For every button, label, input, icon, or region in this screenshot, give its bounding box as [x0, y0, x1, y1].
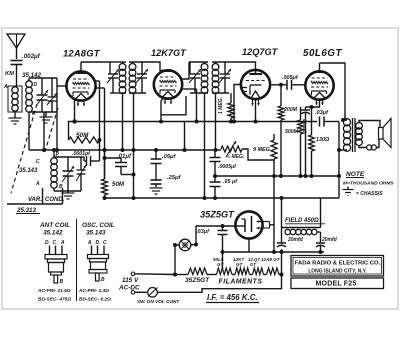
ground — [67, 191, 69, 193]
junction — [221, 250, 225, 254]
speaker — [379, 128, 384, 140]
wire screen — [182, 88, 197, 90]
wire — [281, 198, 283, 243]
junction — [304, 174, 308, 178]
wire diode — [234, 85, 241, 122]
junction — [310, 105, 314, 109]
svg-text:AC-PRI- 21.5Ω: AC-PRI- 21.5Ω — [37, 288, 71, 294]
junction — [254, 120, 258, 124]
wire — [28, 112, 30, 150]
junction — [154, 148, 158, 152]
terminal — [131, 291, 135, 295]
resistor 50M — [69, 122, 75, 141]
svg-text:LONG ISLAND CITY, N.Y.: LONG ISLAND CITY, N.Y. — [308, 269, 367, 275]
wire grid to V2 — [146, 62, 164, 71]
resistor 500M — [300, 107, 302, 120]
wire plate top — [81, 61, 110, 63]
wire — [359, 121, 380, 129]
svg-text:VAR.: VAR. — [28, 197, 42, 203]
svg-text:12K7GT: 12K7GT — [151, 48, 187, 58]
osc coil 35.143 — [53, 150, 55, 158]
gang dashed line — [11, 104, 37, 193]
wire — [320, 198, 322, 228]
resistor 200M — [280, 85, 282, 106]
svg-text:M=THOUSAND OHMS: M=THOUSAND OHMS — [343, 181, 394, 187]
wire — [54, 156, 84, 158]
resistor 50M (osc grid) — [104, 150, 106, 179]
svg-text:20mfd: 20mfd — [321, 237, 338, 243]
wire — [122, 93, 124, 150]
IF2 primary coil — [204, 62, 206, 64]
wire cathode — [306, 100, 320, 107]
bus wire — [215, 175, 339, 177]
voice coil — [359, 145, 367, 148]
variable capacitor (ant tuning) — [41, 78, 43, 95]
wire plate — [180, 62, 189, 79]
svg-text:OSC. COIL: OSC. COIL — [82, 222, 115, 229]
junction — [103, 156, 107, 160]
junction — [221, 224, 225, 228]
junction — [173, 273, 177, 277]
svg-text:9 MEG: 9 MEG — [253, 147, 271, 153]
junction — [337, 148, 341, 152]
divider line — [76, 219, 78, 301]
junction — [232, 120, 236, 124]
bus wire — [105, 197, 340, 199]
svg-text:35Z5GT: 35Z5GT — [200, 210, 235, 220]
pentode V2 12K7GT — [154, 70, 182, 98]
volume control 1/2 MEG — [221, 146, 242, 152]
variable capacitor (osc tuning) — [67, 157, 69, 171]
field coil — [282, 227, 321, 229]
wire — [110, 61, 126, 63]
svg-text:50L6GT: 50L6GT — [303, 48, 342, 59]
resistor 1 MEG — [230, 93, 232, 103]
wire grid to V3 — [229, 62, 256, 66]
svg-text:AC-PRI- 2.3Ω: AC-PRI- 2.3Ω — [78, 288, 109, 294]
wire — [248, 239, 250, 252]
trimmer capacitor — [51, 78, 53, 97]
wire — [135, 291, 147, 293]
svg-text:12Q7GT: 12Q7GT — [242, 47, 279, 57]
svg-text:.0001μf: .0001μf — [72, 151, 91, 157]
IF1 primary trimmer — [109, 62, 111, 74]
wire — [57, 85, 67, 87]
svg-text:A: A — [35, 181, 40, 187]
wire — [204, 93, 206, 198]
junction — [132, 173, 136, 177]
resistor 130 ohm — [311, 107, 313, 135]
wire — [338, 122, 340, 199]
antenna — [7, 34, 25, 48]
svg-text:.005μf: .005μf — [282, 75, 299, 81]
svg-text:20mfd: 20mfd — [287, 237, 304, 243]
wire — [184, 122, 186, 151]
junction — [299, 174, 303, 178]
svg-text:A: A — [60, 240, 65, 246]
junction — [173, 243, 177, 247]
svg-text:BD-SEC- 6.2Ω: BD-SEC- 6.2Ω — [79, 297, 111, 303]
capacitor 40mfd cathode bypass — [305, 107, 307, 110]
beam power tube V4 50L6GT — [305, 71, 333, 99]
ground — [45, 112, 47, 117]
IF2 secondary coil — [215, 62, 217, 64]
svg-text:ANT COIL: ANT COIL — [39, 222, 70, 229]
output transformer secondary — [356, 123, 363, 130]
svg-text:.0005μf: .0005μf — [218, 164, 237, 170]
svg-text:FIELD 450Ω: FIELD 450Ω — [285, 218, 319, 224]
svg-text:KM: KM — [5, 71, 14, 77]
wire — [189, 61, 208, 63]
svg-text:C: C — [103, 240, 107, 246]
svg-text:115 V: 115 V — [122, 277, 139, 284]
switch — [148, 288, 158, 298]
capacitor .05uf — [214, 176, 216, 182]
svg-text:.05 μf: .05 μf — [223, 179, 238, 185]
wire — [212, 61, 229, 63]
ground (chassis note) — [347, 187, 349, 190]
wire plate — [270, 84, 287, 86]
svg-text:D: D — [34, 82, 38, 88]
wire grid lead — [56, 78, 58, 150]
svg-text:1 MEG.: 1 MEG. — [218, 97, 224, 114]
wire — [16, 48, 18, 59]
wire — [175, 244, 179, 246]
wire — [7, 203, 63, 205]
label box FADA — [291, 256, 384, 277]
duo-diode-triode V3 12Q7GT — [241, 70, 270, 99]
wire cathode — [161, 97, 164, 122]
junction — [319, 250, 323, 254]
svg-text:A: A — [87, 240, 92, 246]
transformer core — [352, 118, 354, 152]
ant coil primary 35.142 — [8, 86, 22, 112]
svg-text:NOTE: NOTE — [346, 171, 365, 178]
bus wire — [29, 149, 221, 151]
svg-text:FILAMENTS: FILAMENTS — [219, 279, 263, 286]
svg-text:35.142: 35.142 — [43, 230, 63, 237]
junction — [279, 174, 283, 178]
gang dashed line — [44, 108, 58, 155]
svg-text:130Ω: 130Ω — [316, 137, 330, 143]
wire — [99, 140, 101, 161]
IF2 primary trimmer — [189, 62, 191, 74]
wire — [16, 65, 18, 87]
svg-text:GT: GT — [250, 262, 256, 267]
junction — [229, 120, 233, 124]
wire cathode — [74, 99, 76, 122]
wire — [29, 111, 57, 113]
junction — [194, 243, 198, 247]
svg-text:.01μf: .01μf — [117, 154, 132, 160]
svg-text:200M: 200M — [283, 107, 298, 113]
svg-text:½ MEG.: ½ MEG. — [226, 153, 244, 160]
wire — [129, 61, 146, 63]
trimmer capacitor — [80, 157, 82, 170]
IF1 primary coil — [122, 62, 124, 64]
wire screen stub — [96, 80, 100, 82]
svg-text:SW. ON VOL CONT: SW. ON VOL CONT — [137, 299, 180, 304]
wire — [174, 245, 176, 275]
IF2 secondary trimmer — [224, 62, 226, 74]
svg-text:50M: 50M — [76, 132, 89, 139]
wire cathode — [255, 99, 257, 121]
wire — [281, 249, 283, 275]
junction — [272, 174, 276, 178]
wire heater — [270, 224, 275, 226]
output transformer primary — [343, 119, 350, 126]
svg-text:.03μf: .03μf — [196, 229, 210, 235]
terminal — [131, 272, 135, 276]
svg-text:D: D — [45, 240, 49, 246]
junction — [195, 120, 199, 124]
svg-text:= CHASSIS: = CHASSIS — [356, 191, 383, 197]
bus wire — [223, 251, 325, 253]
svg-text:FADA RADIO & ELECTRIC CO.: FADA RADIO & ELECTRIC CO. — [295, 261, 381, 267]
rectifier V5 35Z5GT — [235, 211, 262, 238]
filament string — [175, 274, 188, 276]
pilot lamp — [179, 239, 191, 251]
svg-text:12A8GT: 12A8GT — [63, 48, 101, 59]
capacitor .002uf — [11, 60, 23, 62]
svg-text:B: B — [60, 279, 64, 285]
wire — [215, 93, 217, 150]
capacitor .0005uf — [214, 149, 216, 158]
svg-text:B: B — [101, 277, 105, 283]
wire stub — [96, 87, 105, 89]
bus B- wire — [75, 121, 318, 123]
svg-text:40mfd: 40mfd — [302, 118, 307, 133]
ant coil secondary — [26, 81, 33, 88]
wire — [158, 275, 282, 293]
svg-text:MODEL F25: MODEL F25 — [316, 281, 357, 288]
svg-text:50M: 50M — [112, 181, 125, 188]
svg-text:.25μf: .25μf — [167, 175, 182, 181]
junction — [159, 120, 163, 124]
svg-text:35.143: 35.143 — [19, 168, 38, 174]
svg-text:500M: 500M — [285, 129, 299, 135]
svg-text:A: A — [3, 84, 8, 90]
svg-text:35Z5GT: 35Z5GT — [185, 277, 210, 284]
svg-text:I.F. = 456 K.C.: I.F. = 456 K.C. — [207, 293, 258, 302]
ground — [14, 112, 16, 118]
junction — [98, 138, 102, 142]
svg-text:.002μf: .002μf — [22, 53, 41, 60]
wire — [242, 149, 274, 160]
svg-text:AC-DC: AC-DC — [118, 285, 140, 292]
pentagrid converter V1 12A8GT — [66, 71, 95, 100]
svg-text:12A8 GT: 12A8 GT — [261, 257, 281, 262]
svg-text:C: C — [53, 240, 57, 246]
svg-text:C: C — [36, 159, 40, 165]
IF1 secondary coil — [132, 62, 134, 64]
svg-text:25.313: 25.313 — [16, 207, 36, 214]
junction — [213, 174, 217, 178]
wire plate — [236, 225, 245, 227]
wire — [42, 188, 44, 204]
svg-text:.03μf: .03μf — [315, 110, 329, 116]
svg-text:BD-SEC- 475Ω: BD-SEC- 475Ω — [38, 297, 71, 303]
junction — [72, 119, 76, 123]
svg-text:COND.: COND. — [45, 197, 65, 203]
wire — [273, 224, 275, 252]
wire — [195, 226, 197, 245]
wire — [135, 273, 175, 276]
svg-text:35.143: 35.143 — [86, 230, 106, 237]
label box MODEL F25 — [291, 278, 384, 289]
svg-text:.05μf: .05μf — [162, 154, 177, 160]
wire — [133, 93, 135, 198]
wire — [53, 188, 55, 191]
IF1 secondary trimmer — [141, 62, 143, 74]
svg-text:D: D — [96, 240, 100, 246]
junction — [337, 174, 341, 178]
wire — [43, 112, 45, 150]
junction — [42, 148, 46, 152]
junction — [279, 83, 283, 87]
wire plate top — [320, 63, 346, 120]
junction — [280, 273, 284, 277]
wire — [28, 78, 30, 81]
